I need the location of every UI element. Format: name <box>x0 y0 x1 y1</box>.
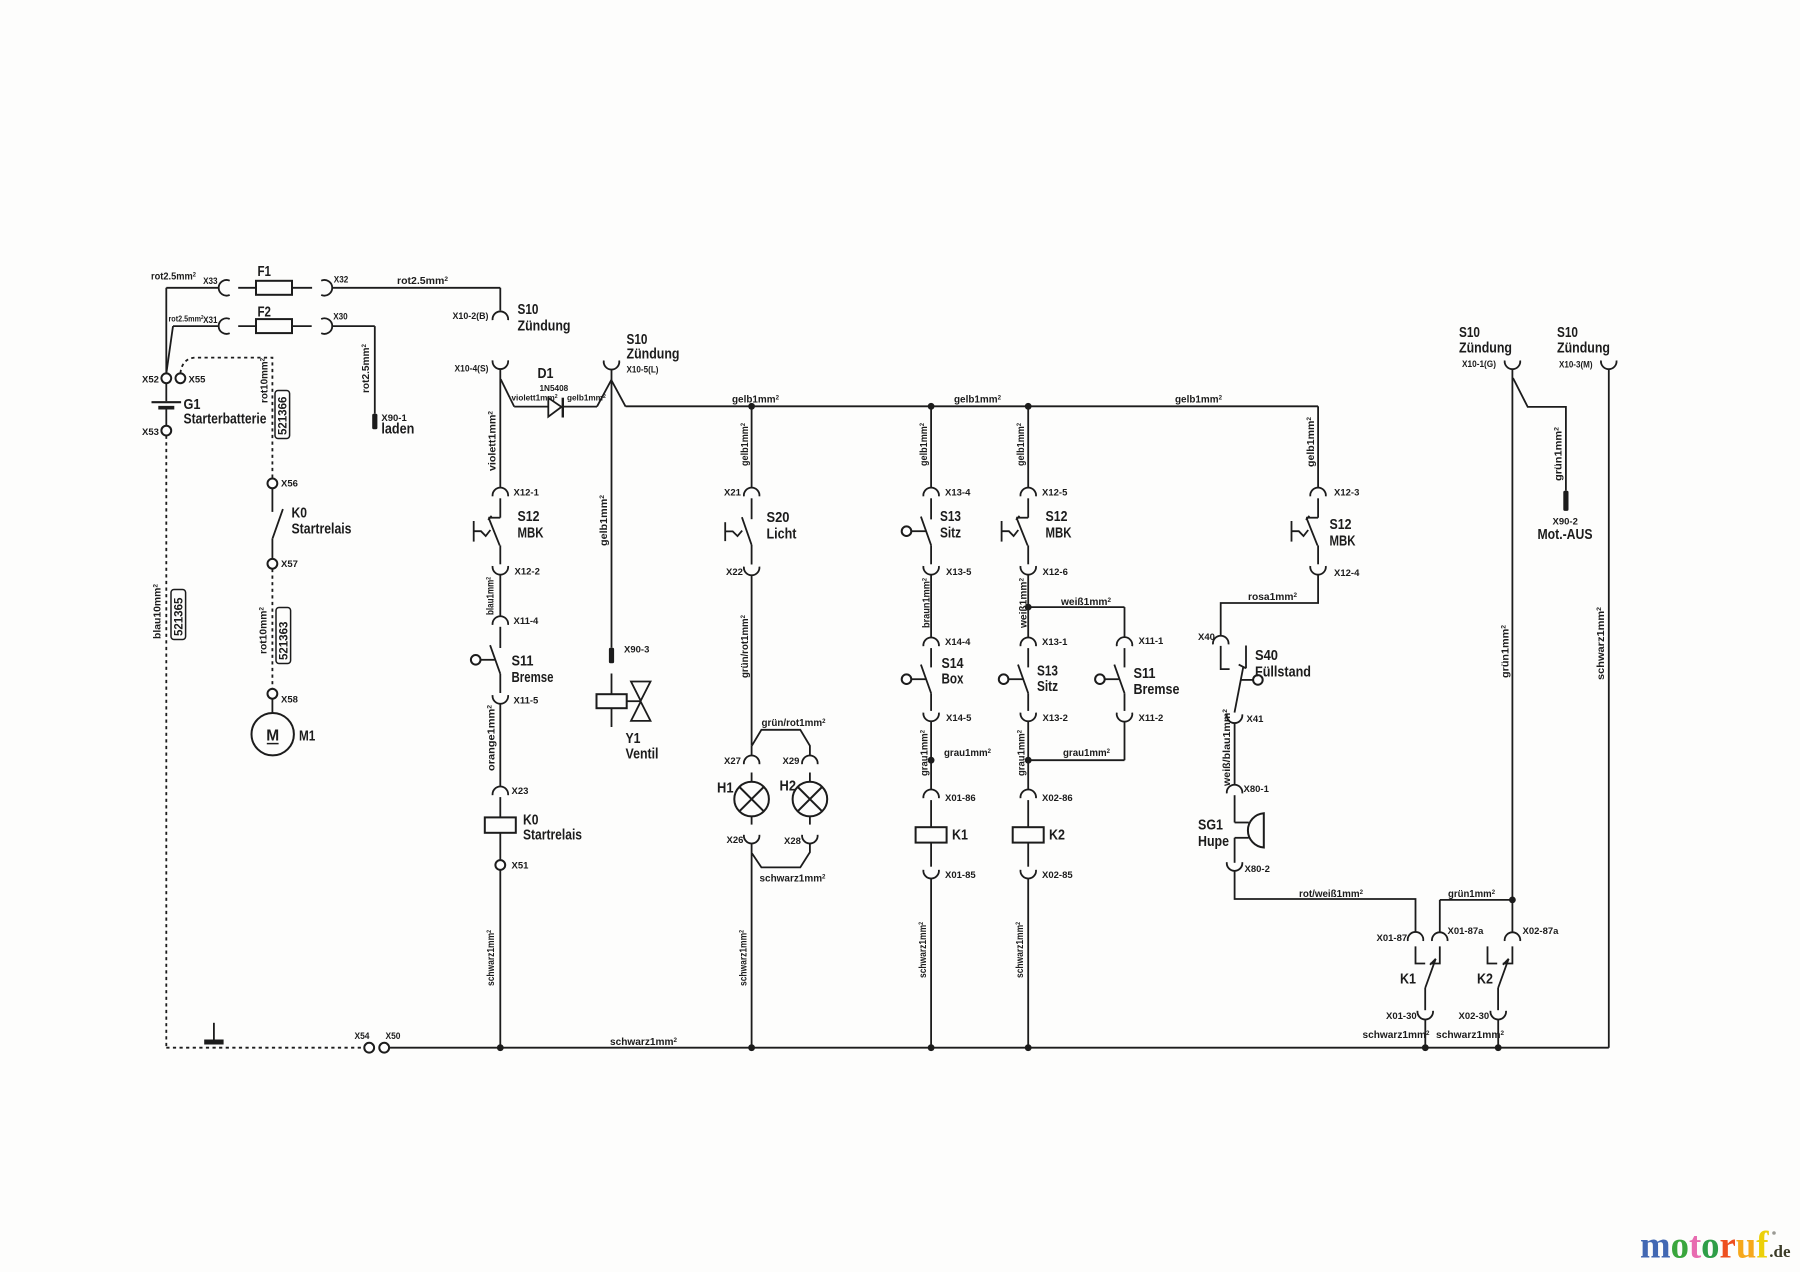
wire schwarz1mm2 from H2 joining H1 <box>752 843 810 867</box>
wire weiss1mm2 <box>1027 575 1029 638</box>
svg-text:motoruf: motoruf <box>1640 1224 1770 1266</box>
switch S12 MBK <box>499 498 501 517</box>
wire grau branch down <box>1124 721 1126 760</box>
switch S13 Sitz middle <box>1027 648 1029 667</box>
svg-text:grau1mm2: grau1mm2 <box>1063 748 1111 759</box>
diode D1 1N5408 <box>514 406 548 408</box>
node X57 <box>268 559 278 569</box>
svg-text:K1: K1 <box>1400 971 1416 988</box>
svg-text:schwarz1mm2: schwarz1mm2 <box>738 930 749 986</box>
svg-text:K2: K2 <box>1477 971 1493 988</box>
svg-text:X29: X29 <box>783 756 800 767</box>
wire gruen1mm2 down <box>1511 369 1513 900</box>
svg-text:grün1mm2: grün1mm2 <box>1500 624 1511 678</box>
connector X10-4(S) <box>493 360 509 369</box>
svg-text:blau10mm2: blau10mm2 <box>152 583 163 639</box>
svg-text:S12: S12 <box>1046 508 1068 525</box>
wire schwarz to ground K2 <box>1497 1019 1499 1047</box>
svg-text:S11: S11 <box>1134 665 1156 682</box>
svg-text:X13-1: X13-1 <box>1042 637 1068 648</box>
svg-text:Bremse: Bremse <box>1134 681 1180 698</box>
terminal X90-1 laden <box>372 414 377 430</box>
svg-text:521366: 521366 <box>278 397 290 435</box>
svg-text:Sitz: Sitz <box>940 525 961 542</box>
wire braun1mm2 <box>930 575 932 638</box>
junction grau col D <box>928 757 935 764</box>
node X14-4 <box>923 638 939 647</box>
svg-text:X58: X58 <box>281 695 298 706</box>
node X12-5 <box>1020 488 1036 497</box>
wire rot2.5 from X30 down to laden <box>332 325 375 327</box>
svg-text:X01-87a: X01-87a <box>1448 926 1485 937</box>
wire grau1mm2 to bus <box>930 721 932 760</box>
svg-text:schwarz1mm2: schwarz1mm2 <box>610 1037 678 1048</box>
svg-text:X13-2: X13-2 <box>1043 713 1068 724</box>
switch S12 MBK middle <box>1027 498 1029 517</box>
svg-text:X01-87: X01-87 <box>1377 933 1408 944</box>
wire schwarz1mm2 col A to ground <box>499 870 501 1048</box>
svg-text:orange1mm2: orange1mm2 <box>486 704 497 771</box>
svg-text:Mot.-AUS: Mot.-AUS <box>1538 526 1593 543</box>
node X26 <box>744 835 760 844</box>
svg-text:.de: .de <box>1769 1242 1791 1261</box>
svg-text:gelb1mm2: gelb1mm2 <box>740 423 751 466</box>
svg-text:X12-4: X12-4 <box>1334 568 1360 579</box>
junction on bus col E <box>1025 403 1032 410</box>
svg-text:X02-30: X02-30 <box>1459 1011 1490 1022</box>
wire blau1mm2 <box>499 575 501 617</box>
wire gelb1mm2 down to Y1 <box>611 380 613 648</box>
lamp H1 <box>751 773 753 782</box>
node X12-3 <box>1310 488 1326 497</box>
branch to diode D1 <box>501 379 515 406</box>
relay coil K1 <box>930 800 932 827</box>
node X02-87a <box>1505 932 1521 941</box>
wire grau1mm2 bus to S11 branch <box>1028 759 1124 761</box>
node X51 <box>495 860 505 870</box>
svg-text:MBK: MBK <box>518 525 544 542</box>
svg-text:grün/rot1mm2: grün/rot1mm2 <box>762 718 827 729</box>
node X28 <box>802 835 818 844</box>
svg-text:Sitz: Sitz <box>1037 678 1058 695</box>
svg-text:S10: S10 <box>1459 324 1480 341</box>
svg-text:rosa1mm2: rosa1mm2 <box>1248 592 1298 603</box>
node X01-87a <box>1432 932 1448 941</box>
node X27 <box>744 756 760 765</box>
svg-text:rot/weiß1mm2: rot/weiß1mm2 <box>1299 889 1364 900</box>
svg-text:rot2.5mm2: rot2.5mm2 <box>361 343 372 393</box>
svg-text:X57: X57 <box>281 559 298 570</box>
node X13-1 <box>1020 638 1036 647</box>
dashed rot10mm2 wire X55 to X56 <box>180 358 272 478</box>
svg-text:braun1mm2: braun1mm2 <box>921 577 932 628</box>
motor M1 <box>271 699 273 713</box>
svg-text:SG1: SG1 <box>1198 817 1223 834</box>
svg-text:Box: Box <box>942 671 965 688</box>
svg-text:Bremse: Bremse <box>512 669 554 686</box>
node X41 <box>1227 714 1243 723</box>
svg-text:Zündung: Zündung <box>518 318 571 335</box>
switch S40 Fuellstand <box>1221 646 1230 669</box>
svg-text:X41: X41 <box>1247 714 1265 725</box>
svg-text:Starterbatterie: Starterbatterie <box>184 411 267 428</box>
wire rot/weiss1mm2 to K1 <box>1235 871 1416 933</box>
svg-text:X52: X52 <box>142 375 159 386</box>
svg-text:S20: S20 <box>767 509 790 526</box>
branch gruen1mm2 to Mot.-AUS <box>1513 378 1566 491</box>
svg-text:grau1mm2: grau1mm2 <box>919 729 930 776</box>
svg-text:S13: S13 <box>1037 663 1058 680</box>
svg-text:521363: 521363 <box>279 622 291 660</box>
svg-text:Startrelais: Startrelais <box>292 521 352 538</box>
svg-text:Licht: Licht <box>767 526 797 543</box>
switch S11 Bremse <box>499 627 501 648</box>
svg-text:X12-2: X12-2 <box>515 567 540 578</box>
svg-text:K2: K2 <box>1049 827 1065 844</box>
wire gruen/rot1mm2 down to lamps <box>751 575 753 746</box>
svg-text:schwarz1mm2: schwarz1mm2 <box>1596 606 1607 680</box>
svg-text:X50: X50 <box>386 1031 401 1042</box>
svg-text:M: M <box>266 728 279 745</box>
node X40 <box>1213 636 1229 645</box>
node X01-86 <box>930 760 932 789</box>
relay contact K2 <box>1488 946 1498 963</box>
junction weiss bus <box>1025 604 1032 611</box>
node X02-86 <box>1027 760 1029 789</box>
junction on bus col D <box>928 403 935 410</box>
svg-text:X11-2: X11-2 <box>1139 713 1164 724</box>
svg-text:X10-3(M): X10-3(M) <box>1559 360 1593 371</box>
switch S14 Box <box>930 648 932 667</box>
node X01-30 <box>1417 1011 1433 1020</box>
svg-text:K1: K1 <box>952 827 968 844</box>
ground symbol <box>213 1023 215 1040</box>
node X80-2 <box>1227 862 1243 871</box>
svg-text:grün1mm2: grün1mm2 <box>1553 426 1564 481</box>
node X11-2 <box>1117 713 1133 722</box>
node X53 <box>161 426 171 436</box>
svg-text:gelb1mm2: gelb1mm2 <box>732 394 780 405</box>
svg-text:X11-5: X11-5 <box>514 696 540 707</box>
svg-text:1N5408: 1N5408 <box>540 384 569 393</box>
svg-text:gelb1mm2: gelb1mm2 <box>1016 423 1027 466</box>
junction ground col A <box>497 1044 504 1051</box>
dashed blau10mm2 wire X53 to ground <box>165 436 167 1048</box>
svg-text:X13-4: X13-4 <box>945 488 971 499</box>
svg-text:X55: X55 <box>189 375 207 386</box>
svg-text:X12-3: X12-3 <box>1334 488 1359 499</box>
svg-text:S10: S10 <box>518 301 539 318</box>
junction grau col E <box>1025 757 1032 764</box>
svg-text:X01-30: X01-30 <box>1386 1011 1417 1022</box>
node X01-85 <box>923 870 939 879</box>
svg-text:521365: 521365 <box>174 597 186 636</box>
svg-text:X01-85: X01-85 <box>945 870 976 881</box>
svg-text:blau1mm2: blau1mm2 <box>485 577 496 615</box>
svg-text:gelb1mm2: gelb1mm2 <box>919 423 930 466</box>
svg-text:X27: X27 <box>724 756 741 767</box>
ground bus schwarz1mm2 <box>389 1047 1609 1049</box>
wire rot2.5 from battery up to F1 row <box>165 288 167 373</box>
svg-text:X10-2(B): X10-2(B) <box>453 311 489 322</box>
node X50 <box>379 1043 389 1053</box>
wire weiss/blau1mm2 <box>1234 723 1236 785</box>
svg-text:X13-5: X13-5 <box>946 567 972 578</box>
wire gelb1mm2 bus <box>626 405 1319 407</box>
svg-text:schwarz1mm2: schwarz1mm2 <box>1015 922 1026 978</box>
svg-text:rot2.5mm2: rot2.5mm2 <box>151 271 197 282</box>
junction ground col C <box>748 1044 755 1051</box>
svg-text:grau1mm2: grau1mm2 <box>944 748 992 759</box>
svg-text:grün/rot1mm2: grün/rot1mm2 <box>740 614 751 678</box>
switch S13 Sitz <box>930 498 932 519</box>
svg-text:S14: S14 <box>942 655 965 672</box>
junction ground col E <box>1025 1044 1032 1051</box>
node X12-4 <box>1310 566 1326 575</box>
junction K1 ground <box>1422 1044 1429 1051</box>
svg-text:S12: S12 <box>1330 516 1352 533</box>
wire grau1mm2 col E <box>1027 721 1029 760</box>
node X55 <box>176 373 186 383</box>
svg-text:rot10mm2: rot10mm2 <box>258 606 269 654</box>
svg-text:MBK: MBK <box>1046 525 1072 542</box>
svg-text:M1: M1 <box>299 728 315 745</box>
svg-text:schwarz1mm2: schwarz1mm2 <box>486 930 497 986</box>
junction gruen at K relays <box>1509 897 1516 904</box>
svg-text:rot10mm2: rot10mm2 <box>259 357 270 403</box>
svg-text:schwarz1mm2: schwarz1mm2 <box>1436 1030 1505 1041</box>
svg-text:Ventil: Ventil <box>626 746 659 763</box>
svg-text:weiß1mm2: weiß1mm2 <box>1018 577 1029 629</box>
svg-text:X26: X26 <box>727 835 744 846</box>
wire schwarz1mm2 right edge <box>1608 369 1610 1047</box>
branch gruen/rot1mm2 to H2 <box>752 730 810 756</box>
node X54 <box>364 1043 374 1053</box>
svg-text:X12-6: X12-6 <box>1043 567 1068 578</box>
node X56 <box>268 479 278 489</box>
svg-text:S11: S11 <box>512 653 534 670</box>
label 521365 <box>171 590 186 640</box>
wire schwarz1mm2 col D to ground <box>930 878 932 1047</box>
svg-text:violett1mm2: violett1mm2 <box>487 410 498 471</box>
wire rosa1mm2 to S40 <box>1221 575 1318 636</box>
svg-text:X32: X32 <box>334 275 349 286</box>
node X32 <box>321 280 332 296</box>
svg-text:S12: S12 <box>518 508 540 525</box>
svg-text:X01-86: X01-86 <box>945 793 976 804</box>
svg-text:X11-1: X11-1 <box>1139 636 1165 647</box>
node X80-1 <box>1227 785 1243 794</box>
svg-text:Hupe: Hupe <box>1198 833 1229 850</box>
switch S20 Licht <box>751 498 753 519</box>
svg-text:schwarz1mm2: schwarz1mm2 <box>760 873 827 884</box>
wire schwarz1mm2 col E to ground <box>1027 878 1029 1047</box>
node X13-2 <box>1020 713 1036 722</box>
node X23 <box>493 787 509 796</box>
terminal X90-3 <box>609 648 614 664</box>
svg-text:laden: laden <box>381 421 414 438</box>
svg-text:X31: X31 <box>203 315 218 326</box>
wire weiss1mm2 branch to S11 <box>1028 606 1124 608</box>
wire gelb1mm2 down col E <box>1027 406 1029 487</box>
relay contact K1 <box>1416 946 1426 963</box>
junction on bus col C <box>748 403 755 410</box>
node X01-87 <box>1408 932 1424 941</box>
node X52 <box>161 373 171 383</box>
svg-text:F2: F2 <box>258 304 272 321</box>
svg-text:H1: H1 <box>717 780 734 797</box>
wire schwarz to ground K1 <box>1424 1019 1426 1047</box>
node X02-85 <box>1020 870 1036 879</box>
svg-text:X80-1: X80-1 <box>1244 784 1270 795</box>
svg-text:X33: X33 <box>203 276 218 287</box>
switch S12 MBK right <box>1317 498 1319 517</box>
svg-text:X14-5: X14-5 <box>946 713 972 724</box>
svg-text:S40: S40 <box>1255 647 1278 664</box>
connector X10-2(B) S10 Zuendung <box>493 311 509 320</box>
label 521366 <box>275 391 290 439</box>
svg-text:X10-1(G): X10-1(G) <box>1462 359 1496 370</box>
wire orange1mm2 <box>499 704 501 787</box>
svg-text:X28: X28 <box>784 836 801 847</box>
svg-text:D1: D1 <box>538 365 554 382</box>
svg-text:X02-85: X02-85 <box>1042 870 1073 881</box>
svg-text:X12-1: X12-1 <box>514 488 540 499</box>
svg-text:Startrelais: Startrelais <box>523 827 582 844</box>
node X13-4 <box>923 488 939 497</box>
svg-text:X90-3: X90-3 <box>624 645 649 656</box>
svg-text:X53: X53 <box>142 427 159 438</box>
dashed rot10mm2 wire X57 to X58 <box>271 569 273 689</box>
svg-text:gelb1mm2: gelb1mm2 <box>1175 394 1223 405</box>
node X29 <box>802 756 818 765</box>
svg-text:Zündung: Zündung <box>1557 340 1610 357</box>
battery G1 Starterbatterie <box>165 383 167 401</box>
svg-text:gelb1mm2: gelb1mm2 <box>1306 416 1317 467</box>
svg-text:grau1mm2: grau1mm2 <box>1016 729 1027 776</box>
svg-text:gelb1mm2: gelb1mm2 <box>599 494 610 546</box>
svg-text:X40: X40 <box>1198 632 1215 643</box>
valve Y1 Ventil <box>611 674 613 695</box>
svg-text:X51: X51 <box>512 861 530 872</box>
svg-text:S10: S10 <box>1557 324 1578 341</box>
svg-text:Y1: Y1 <box>626 730 641 747</box>
svg-text:X02-87a: X02-87a <box>1523 926 1560 937</box>
svg-text:X54: X54 <box>355 1031 371 1042</box>
svg-text:X02-86: X02-86 <box>1042 793 1073 804</box>
wire gelb1mm2 down col D <box>930 406 932 487</box>
svg-text:gelb1mm2: gelb1mm2 <box>954 394 1002 405</box>
svg-text:weiß1mm2: weiß1mm2 <box>1060 597 1112 608</box>
node X22 <box>744 567 760 576</box>
switch K0 Startrelais <box>271 489 273 512</box>
svg-text:X22: X22 <box>726 567 743 578</box>
svg-text:X30: X30 <box>333 312 348 323</box>
svg-text:X23: X23 <box>512 786 529 797</box>
wire schwarz1mm2 down col C to ground <box>751 843 753 1047</box>
node X14-5 <box>923 713 939 722</box>
svg-text:rot2.5mm2: rot2.5mm2 <box>397 276 449 287</box>
svg-text:schwarz1mm2: schwarz1mm2 <box>1363 1030 1431 1041</box>
node X11-1 <box>1117 637 1133 646</box>
node X02-30 <box>1490 1011 1506 1020</box>
svg-text:grün1mm2: grün1mm2 <box>1448 889 1496 900</box>
node X13-5 <box>923 566 939 575</box>
svg-text:K0: K0 <box>292 505 308 522</box>
lamp H2 <box>809 773 811 782</box>
wire to X10-5(L) branch <box>597 380 626 407</box>
svg-text:schwarz1mm2: schwarz1mm2 <box>918 922 929 978</box>
svg-text:S13: S13 <box>940 508 961 525</box>
horn SG1 Hupe <box>1234 795 1236 822</box>
svg-text:X11-4: X11-4 <box>514 616 540 627</box>
svg-text:X80-2: X80-2 <box>1245 864 1270 875</box>
switch S11 Bremse middle <box>1124 648 1126 667</box>
svg-text:X12-5: X12-5 <box>1042 488 1068 499</box>
svg-text:rot2.5mm2: rot2.5mm2 <box>169 315 204 324</box>
wire rot2.5 from X32 to S10 <box>332 287 500 289</box>
svg-text:violett1mm2: violett1mm2 <box>512 394 558 403</box>
wire violett1mm2 down col A <box>499 369 501 488</box>
node X30 <box>321 318 332 334</box>
node X11-5 <box>493 695 509 704</box>
label 521363 <box>276 608 291 664</box>
relay coil K0 Startrelais <box>499 797 501 817</box>
svg-text:X10-4(S): X10-4(S) <box>455 364 489 375</box>
junction K2 ground <box>1495 1044 1502 1051</box>
node X12-6 <box>1020 566 1036 575</box>
svg-text:X56: X56 <box>281 479 298 490</box>
node X12-1 <box>493 488 509 497</box>
node X11-4 <box>493 616 509 625</box>
svg-text:Füllstand: Füllstand <box>1255 664 1311 681</box>
relay coil K2 <box>1027 800 1029 827</box>
node X21 <box>744 488 760 497</box>
junction ground col D <box>928 1044 935 1051</box>
terminal X90-2 Mot.-AUS <box>1563 491 1568 511</box>
wire rot2.5 from battery to F2 row <box>173 325 219 327</box>
svg-text:Zündung: Zündung <box>627 346 680 363</box>
svg-text:X14-4: X14-4 <box>945 637 971 648</box>
svg-text:X21: X21 <box>724 488 742 499</box>
svg-text:Zündung: Zündung <box>1459 340 1512 357</box>
node X12-2 <box>493 566 509 575</box>
svg-text:F1: F1 <box>258 263 272 280</box>
svg-text:MBK: MBK <box>1330 533 1356 550</box>
node X58 <box>268 689 278 699</box>
wire gelb1mm2 down col C <box>751 406 753 487</box>
svg-text:weiß/blau1mm2: weiß/blau1mm2 <box>1222 708 1233 787</box>
svg-text:X10-5(L): X10-5(L) <box>627 365 659 376</box>
